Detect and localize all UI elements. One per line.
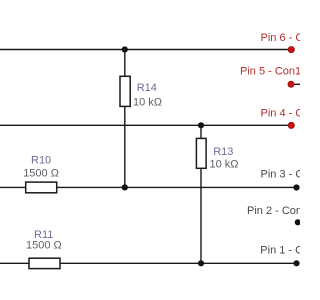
pin 6 unconnected pin dot (red): [288, 47, 294, 53]
node junction W2/R13: [198, 122, 204, 128]
wire V1 vertical leg of R14: [124, 50, 126, 188]
svg-text:10 kΩ: 10 kΩ: [133, 96, 162, 108]
svg-text:Pin 1 - Con1: Pin 1 - Con1: [260, 244, 300, 256]
svg-text:Pin 5 - Con1: Pin 5 - Con1: [240, 66, 300, 78]
pin 4 unconnected pin dot (red): [288, 122, 294, 128]
wire W3 net to Pin 3 (through R10): [0, 186, 297, 188]
svg-text:Pin 4 - Con1: Pin 4 - Con1: [261, 107, 301, 119]
resistor R10 body: [26, 182, 57, 193]
svg-text:R10: R10: [31, 154, 51, 166]
svg-text:R13: R13: [213, 146, 233, 158]
wire W5 net to Pin 1 (through R11): [0, 262, 297, 264]
wire V2 vertical leg of R13: [200, 125, 202, 263]
node junction W5/R13 leg: [198, 260, 204, 266]
pin 2 connected pin dot: [295, 219, 301, 225]
svg-text:R14: R14: [137, 82, 157, 94]
svg-text:Pin 6 - Con1: Pin 6 - Con1: [261, 32, 301, 44]
pin 1 connected pin dot: [293, 260, 299, 266]
node junction W3/R14 leg: [122, 184, 128, 190]
wire W2 net to Pin 4: [0, 124, 291, 126]
resistor R14 body: [120, 76, 130, 106]
svg-text:1500 Ω: 1500 Ω: [26, 239, 62, 251]
node junction W1/R14: [122, 46, 128, 52]
pin 3 connected pin dot: [293, 184, 299, 190]
pin 5 stub wire: [293, 83, 300, 85]
svg-text:Pin 2 - Con1: Pin 2 - Con1: [247, 205, 300, 217]
svg-text:Pin 3 - Con1: Pin 3 - Con1: [261, 169, 301, 181]
wire W1 net to Pin 6: [0, 49, 291, 51]
resistor R11 body: [29, 258, 60, 268]
pin 5 unconnected pin dot (red): [288, 81, 294, 87]
resistor R13 body: [196, 138, 206, 168]
svg-text:1500 Ω: 1500 Ω: [23, 168, 59, 180]
svg-text:10 kΩ: 10 kΩ: [210, 159, 239, 171]
